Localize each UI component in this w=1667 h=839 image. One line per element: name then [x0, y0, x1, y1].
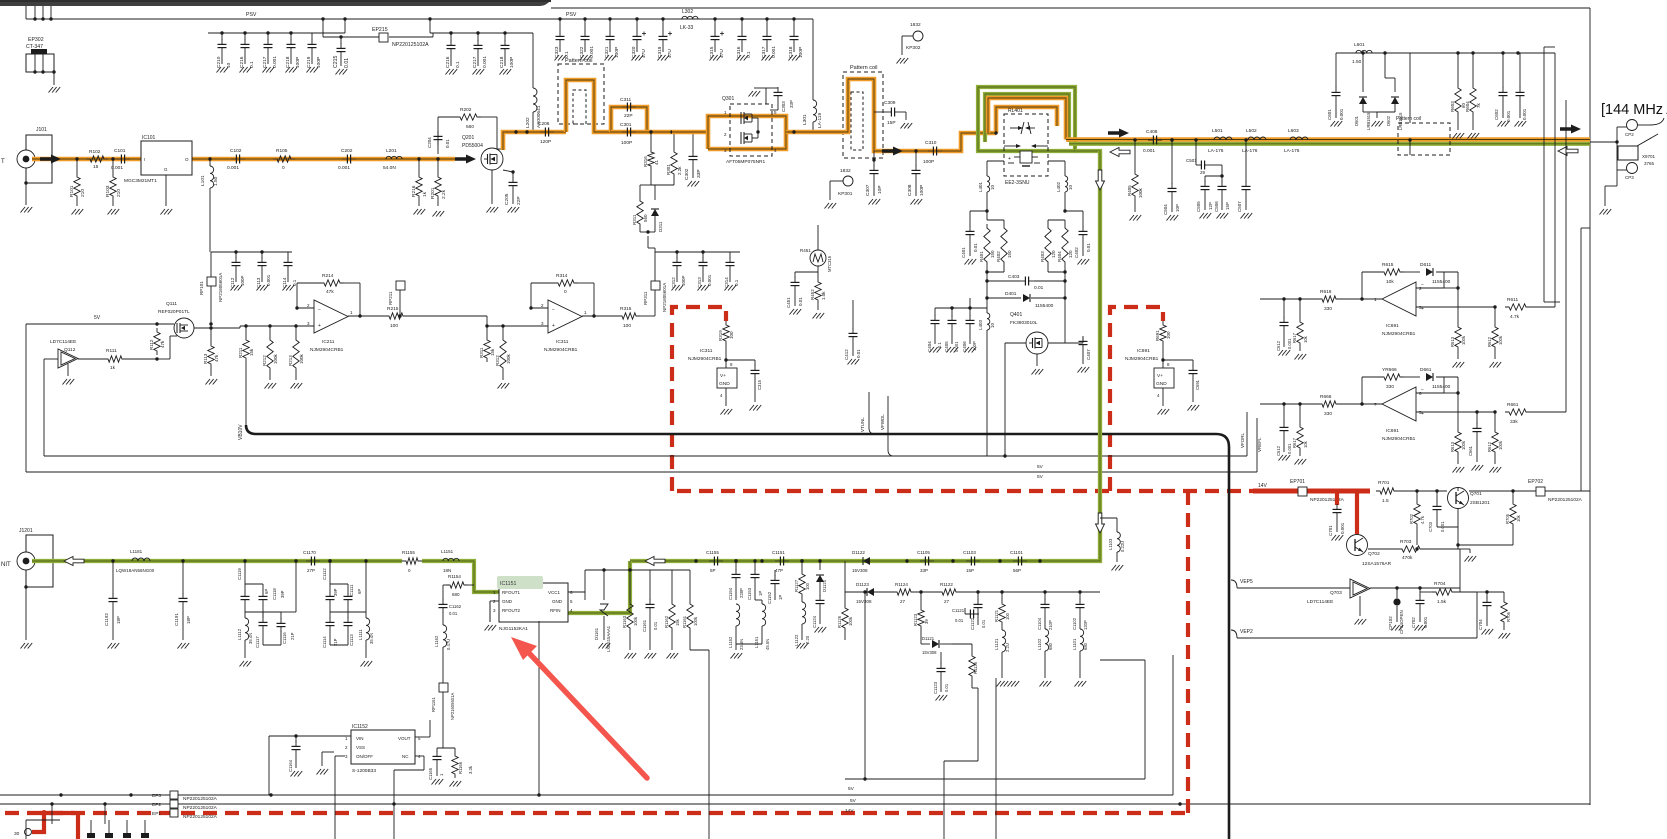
svg-text:C612: C612: [1276, 340, 1281, 351]
resistor R617 stage 2 10k: [1292, 404, 1308, 456]
svg-text:2.2k: 2.2k: [677, 166, 682, 175]
ground C320: [632, 55, 644, 61]
svg-text:D661: D661: [1420, 367, 1432, 373]
capacitor C315 0.01 bypass: [726, 360, 762, 402]
svg-text:1.50: 1.50: [1352, 59, 1362, 65]
wire IC691 stage 2 feedback: [1362, 377, 1460, 428]
svg-text:0.001: 0.001: [338, 165, 350, 171]
svg-text:0.01: 0.01: [955, 618, 964, 623]
wire sheet top border: [551, 7, 1590, 9]
resistor R703 470k: [1368, 539, 1460, 592]
svg-text:R1121: R1121: [994, 609, 999, 622]
wire 5V rail: [26, 322, 213, 325]
net label VFORL: [1240, 432, 1245, 448]
signal arrow after relay: [1108, 129, 1129, 138]
capacitor C661 0.001 stage2 extra: [1468, 410, 1482, 462]
wire IC691 stage 1 output: [1416, 305, 1497, 308]
ground C701: [1332, 535, 1344, 541]
svg-text:YR666: YR666: [1382, 367, 1397, 373]
relay RL401 dashed box: [1004, 108, 1048, 176]
svg-text:330: 330: [1386, 384, 1394, 390]
svg-text:1P: 1P: [778, 595, 783, 600]
inductor L1103 0.22U: [1100, 518, 1125, 562]
svg-text:IC1151: IC1151: [500, 581, 516, 587]
ground KP302: [897, 58, 909, 64]
svg-text:R314: R314: [556, 273, 568, 279]
svg-text:EE2-3SNU: EE2-3SNU: [1005, 180, 1030, 186]
ground L1103: [1112, 565, 1124, 571]
wire IC211-2 feedback: [529, 283, 618, 318]
ground C401: [965, 259, 977, 265]
svg-text:R1126: R1126: [837, 615, 842, 628]
capacitor C703 0.001: [1428, 489, 1458, 532]
ground edge connector: [1600, 209, 1612, 215]
ground C315: [710, 55, 722, 61]
attenuator pad RP211: [388, 281, 405, 318]
wire edge connector: [1590, 127, 1628, 206]
svg-text:R311: R311: [632, 214, 637, 225]
ground C216: [240, 67, 252, 73]
capacitor C101 0.001: [111, 148, 130, 171]
capacitor C612 stage 2: [1276, 404, 1292, 456]
ground Q201 source: [487, 170, 499, 213]
ground C314 row: [725, 285, 737, 291]
wire cap row riser: [648, 236, 655, 252]
svg-text:680: 680: [1048, 642, 1053, 650]
svg-text:0.01: 0.01: [981, 619, 986, 628]
capacitor C1103 15P in green: [951, 550, 980, 573]
svg-text:5P: 5P: [710, 568, 716, 573]
resistor R452 1.0k: [810, 266, 826, 310]
svg-text:27: 27: [944, 599, 950, 604]
capacitor C309 15P: [874, 100, 906, 126]
svg-text:C703: C703: [1428, 521, 1433, 532]
wire x1581 drop: [1581, 228, 1590, 491]
svg-text:0.01: 0.01: [798, 297, 803, 306]
svg-text:R1123: R1123: [913, 613, 918, 626]
svg-text:C612: C612: [1276, 445, 1281, 456]
svg-text:IC691: IC691: [1386, 323, 1399, 329]
svg-text:R616: R616: [1320, 289, 1332, 295]
capacitor C315 47U: [709, 17, 725, 58]
red solid bottom left: [32, 813, 75, 832]
capacitor C704 0.001: [1477, 590, 1492, 630]
svg-text:GND: GND: [502, 599, 513, 604]
ground D1161: [599, 643, 611, 649]
svg-text:54.0N: 54.0N: [383, 165, 396, 171]
capacitor C603 0.001: [1516, 53, 1528, 120]
resistor R216 1k: [411, 157, 428, 206]
svg-text:C1164: C1164: [288, 759, 293, 772]
svg-text:R316: R316: [643, 156, 648, 167]
ground C506: [1217, 213, 1229, 219]
capacitor C1191 18P: [174, 559, 191, 640]
svg-text:L201: L201: [386, 148, 397, 154]
ground C1123: [936, 695, 948, 701]
wire bottom rail to border corner: [0, 804, 1590, 805]
capacitor C505 12P: [1196, 176, 1222, 212]
svg-text:R312: R312: [495, 355, 500, 366]
capacitor C1170 27P in green: [294, 550, 331, 573]
ground J1201: [21, 643, 33, 649]
ground C210: [217, 67, 229, 73]
svg-text:10: 10: [990, 322, 995, 328]
svg-text:1.5k: 1.5k: [1437, 599, 1447, 605]
svg-text:EP2: EP2: [152, 802, 161, 808]
svg-text:15P: 15P: [887, 120, 896, 126]
resistor R103 210: [105, 157, 122, 206]
capacitor C1123 0.01: [933, 652, 949, 694]
net label 5V rail b: [850, 798, 857, 804]
wire block risers to orange: [1408, 53, 1411, 155]
svg-text:CP3: CP3: [1625, 175, 1634, 180]
net label VFWDL wire: [880, 396, 894, 456]
capacitor C112 100P: [230, 252, 245, 288]
red path loop2: [1110, 307, 1163, 491]
capacitor C407 0.01: [1065, 336, 1091, 364]
ground R216: [414, 209, 426, 215]
ground C302: [688, 181, 700, 187]
svg-text:C316: C316: [736, 46, 742, 58]
svg-text:10k: 10k: [1516, 514, 1521, 522]
ground R617 stage 1: [1295, 354, 1307, 360]
capacitor C1161 0.01: [642, 599, 658, 650]
wire R451 riser: [817, 225, 819, 250]
svg-text:EP215: EP215: [372, 27, 388, 33]
resistor R616 stage 1 330: [1318, 289, 1382, 312]
wire cap row A: [208, 19, 345, 35]
svg-text:L401: L401: [978, 181, 983, 192]
svg-text:R666: R666: [1320, 394, 1332, 400]
rx arrow outline down green 2: [1096, 513, 1105, 533]
wire green relay outer loop: [978, 87, 1075, 151]
net label VB10V: [238, 424, 244, 440]
wire green RFIN riser components: [584, 561, 586, 570]
svg-text:100P: 100P: [923, 159, 934, 165]
node after IC101: [208, 157, 211, 160]
wire IC1152 pins: [335, 720, 430, 839]
svg-text:4.7k: 4.7k: [1510, 314, 1520, 320]
svg-text:AFT05MP075NR1: AFT05MP075NR1: [726, 159, 766, 165]
svg-text:NP220125102A: NP220125102A: [1548, 497, 1583, 503]
svg-text:100: 100: [390, 323, 398, 329]
resistor R691 100: [1155, 321, 1171, 368]
svg-text:0.001: 0.001: [1143, 148, 1155, 154]
svg-text:33k: 33k: [1510, 419, 1518, 425]
diode D602 LRB1515: [1377, 53, 1403, 130]
svg-text:R705: R705: [1505, 513, 1510, 524]
svg-text:560: 560: [466, 124, 474, 130]
svg-text:T: T: [1, 159, 5, 165]
svg-text:15P: 15P: [966, 568, 974, 573]
svg-text:VIN: VIN: [356, 736, 364, 741]
wire IC1151 gnd pins below: [509, 622, 511, 650]
net label 5V rail a: [848, 786, 855, 792]
svg-text:3765: 3765: [1644, 161, 1655, 166]
svg-text:L502: L502: [1246, 128, 1257, 134]
svg-text:C1191: C1191: [174, 613, 179, 626]
ground C112: [231, 285, 243, 291]
svg-text:10: 10: [990, 184, 995, 190]
svg-text:L1111: L1111: [358, 629, 363, 640]
svg-text:C311: C311: [620, 97, 631, 103]
svg-text:R216: R216: [411, 185, 417, 197]
svg-text:RP211: RP211: [388, 291, 393, 305]
relay RL401 contacts: [1004, 122, 1048, 166]
svg-text:C319: C319: [657, 46, 663, 58]
wire x539 drop: [538, 621, 540, 795]
ground R1166: [450, 781, 462, 787]
svg-text:IC311: IC311: [700, 348, 713, 354]
svg-text:R452: R452: [810, 289, 815, 300]
svg-text:L301: L301: [802, 114, 808, 125]
ground R706: [1499, 633, 1511, 639]
svg-text:47k: 47k: [326, 289, 334, 295]
svg-text:0.001: 0.001: [707, 274, 712, 286]
attenuator pad RP101: [199, 273, 223, 302]
svg-text:RP101: RP101: [199, 281, 204, 295]
capacitor C321 100P: [604, 17, 620, 58]
svg-text:560: 560: [643, 214, 648, 222]
resistor R1163 100k: [622, 568, 638, 650]
svg-text:33P: 33P: [696, 169, 702, 178]
resistor R211 15k: [238, 326, 256, 434]
wire orange pattern coil 1 hump: [566, 80, 611, 132]
svg-text:Q301: Q301: [722, 96, 734, 102]
svg-text:R202: R202: [460, 107, 472, 113]
svg-text:100k: 100k: [1461, 440, 1466, 450]
ground C406: [965, 347, 977, 353]
svg-text:C215: C215: [333, 55, 339, 68]
wire IC691 stage 1 input: [1260, 297, 1318, 300]
svg-text:L1121: L1121: [994, 638, 999, 650]
svg-text:0.001: 0.001: [1339, 108, 1344, 120]
svg-text:1832: 1832: [910, 22, 921, 28]
svg-text:33P: 33P: [920, 568, 928, 573]
resistor R704 1.5k: [1420, 581, 1477, 605]
wire RX second row: [845, 561, 1100, 594]
svg-text:210P: 210P: [1048, 620, 1053, 630]
wire IC1152 input: [269, 736, 351, 795]
wire R661 up right: [1530, 100, 1566, 412]
svg-text:10k: 10k: [1386, 279, 1394, 285]
svg-text:RFIN: RFIN: [550, 608, 561, 613]
svg-text:C402: C402: [1074, 247, 1079, 258]
wire green parallel out to border: [1069, 142, 1590, 146]
wire pi filter 1: [243, 559, 263, 655]
capacitor C507 cap: [1237, 138, 1251, 212]
svg-text:0.01: 0.01: [445, 139, 450, 148]
svg-text:LRB1515: LRB1515: [1366, 112, 1371, 130]
svg-text:C1154: C1154: [728, 587, 733, 600]
inductor L1162 0.47U: [434, 625, 451, 683]
capacitor C506 15P: [1214, 176, 1230, 212]
svg-text:47k: 47k: [160, 340, 165, 348]
svg-text:R1122: R1122: [940, 582, 953, 587]
diode D1122 15V308 in green: [852, 550, 870, 573]
svg-text:0.001: 0.001: [1340, 522, 1345, 534]
svg-text:L1152: L1152: [728, 636, 733, 648]
ground R103: [108, 209, 120, 215]
resistor R311 15k: [479, 326, 495, 362]
svg-text:100: 100: [805, 582, 810, 590]
svg-text:R612: R612: [1487, 441, 1492, 452]
svg-text:R213: R213: [288, 355, 293, 366]
ground C402: [1078, 259, 1090, 265]
svg-text:EP302: EP302: [28, 37, 44, 43]
svg-text:1155400: 1155400: [1035, 303, 1054, 309]
svg-text:R611: R611: [1507, 297, 1518, 303]
svg-text:0.1: 0.1: [249, 61, 255, 68]
svg-text:C1105: C1105: [917, 550, 930, 555]
signal arrow into Q201: [455, 155, 476, 164]
svg-text:18N: 18N: [443, 568, 451, 573]
svg-text:LA-176: LA-176: [1208, 148, 1224, 154]
svg-text:NP220125102A: NP220125102A: [1310, 497, 1345, 503]
capacitor C1161 0.01 net: [568, 592, 585, 601]
wire sheet right border: [1589, 8, 1591, 805]
svg-text:C408: C408: [1146, 129, 1158, 135]
test pad EP3: [152, 791, 218, 802]
wire orange into Q301 ring: [672, 130, 708, 135]
svg-text:C217: C217: [262, 56, 268, 68]
ground C308: [911, 199, 923, 205]
capacitor C218 100P: [285, 33, 301, 68]
svg-text:LD7C114EE: LD7C114EE: [1307, 599, 1333, 605]
ground C1191: [178, 643, 190, 649]
svg-text:6P: 6P: [357, 589, 362, 594]
svg-text:C702: C702: [1411, 617, 1416, 628]
svg-text:EP1: EP1: [152, 811, 161, 817]
wire IC691 stage 2 output: [1416, 410, 1497, 413]
svg-text:100k: 100k: [506, 353, 511, 364]
ground C217 row B: [473, 69, 485, 75]
svg-text:C403: C403: [1008, 274, 1020, 280]
capacitor C601 0.001: [1327, 87, 1344, 120]
svg-text:R706: R706: [1506, 611, 1511, 622]
svg-text:G: G: [164, 167, 168, 172]
resistor R617 stage 1 10k: [1292, 299, 1308, 351]
regulator IC1152 S-1200B33: [345, 724, 421, 774]
ground C219: [307, 67, 319, 73]
capacitor C303 33P: [754, 87, 794, 112]
svg-text:C1121: C1121: [952, 608, 965, 613]
svg-text:6P: 6P: [264, 589, 269, 594]
ground C322: [580, 55, 592, 61]
resistor R1154 680: [443, 574, 474, 600]
capacitor C1152 1P: [755, 570, 783, 604]
resistor R701 1.5: [1376, 480, 1447, 504]
svg-text:C1111: C1111: [349, 584, 354, 596]
svg-text:10: 10: [226, 62, 232, 68]
svg-text:41: 41: [654, 159, 659, 165]
svg-text:GND: GND: [552, 599, 563, 604]
svg-text:GND: GND: [719, 381, 730, 387]
svg-text:D1121: D1121: [922, 636, 935, 641]
svg-text:V+: V+: [1157, 373, 1163, 379]
svg-text:C205: C205: [504, 193, 510, 205]
capacitor C114 0.1: [282, 252, 297, 288]
svg-text:LQW18AN56NG00: LQW18AN56NG00: [116, 568, 155, 573]
svg-text:L1103: L1103: [1108, 538, 1113, 550]
svg-text:Q703: Q703: [1330, 590, 1342, 596]
svg-text:0.1: 0.1: [937, 342, 942, 348]
resistor R402 150: [996, 220, 1012, 272]
ground R452: [813, 313, 825, 319]
svg-text:−: −: [552, 307, 555, 313]
svg-text:R703: R703: [1400, 539, 1412, 545]
ground C317: [762, 55, 774, 61]
svg-text:L1151: L1151: [441, 549, 454, 554]
net label 14V: [1258, 483, 1268, 489]
svg-text:0.01: 0.01: [856, 349, 861, 358]
capacitor C1117 41P: [255, 612, 281, 648]
svg-text:NJM2904CRB1: NJM2904CRB1: [1125, 356, 1159, 362]
svg-text:5V: 5V: [850, 798, 857, 804]
capacitor C310 100P in orange: [923, 140, 942, 165]
svg-text:PSV: PSV: [566, 12, 577, 18]
resistor R101 210: [69, 157, 86, 206]
svg-text:C206: C206: [538, 121, 550, 127]
inductor L402 10: [1056, 176, 1073, 213]
ground C507: [1241, 213, 1253, 219]
svg-text:C602: C602: [1494, 109, 1499, 120]
ground R613 stage 1: [1453, 362, 1465, 368]
inductor L603 LA-176 in orange: [1284, 128, 1308, 154]
ground C307: [869, 199, 881, 205]
wire rail y793: [0, 793, 1182, 805]
svg-text:C1152: C1152: [767, 591, 772, 604]
svg-text:RP1161: RP1161: [431, 697, 436, 712]
svg-text:100k: 100k: [273, 353, 278, 364]
transistor Q702 12SA1576AR: [1347, 535, 1392, 568]
rx arrow outline down green: [1096, 170, 1105, 190]
resistor R612 stage 2 100k: [1487, 412, 1503, 464]
svg-text:100k: 100k: [693, 616, 698, 626]
svg-text:C309: C309: [884, 100, 896, 106]
capacitor C403 0.01: [985, 274, 1066, 291]
ground R212: [265, 383, 277, 389]
ground L1102: [1040, 681, 1052, 687]
svg-text:IC211: IC211: [322, 339, 335, 345]
svg-text:R403: R403: [1040, 251, 1045, 262]
svg-text:C601: C601: [1327, 109, 1332, 120]
svg-text:I: I: [144, 157, 145, 162]
resistor R319 100: [718, 321, 734, 368]
svg-text:R215: R215: [387, 306, 399, 312]
attenuator pad RP311: [643, 252, 667, 312]
ground D601 D602: [1372, 121, 1384, 127]
ground IC691: [1158, 409, 1170, 415]
connector pin 30: [14, 820, 60, 839]
ground IC1152 vss: [317, 752, 335, 775]
svg-text:0.1: 0.1: [734, 279, 739, 286]
wire orange relay outer loop: [988, 98, 1066, 140]
wire green vertical from relay: [630, 151, 1100, 561]
svg-text:C1103: C1103: [963, 550, 976, 555]
svg-text:1155400: 1155400: [1432, 279, 1451, 285]
svg-text:C1161: C1161: [642, 619, 647, 632]
svg-text:C1122: C1122: [970, 617, 975, 630]
wire VB10V thick rail: [246, 425, 1229, 839]
svg-text:L603: L603: [1288, 128, 1299, 134]
capacitor C317 0.001: [761, 17, 777, 58]
net label PSV (2): [566, 12, 577, 18]
svg-text:100P: 100P: [681, 275, 686, 286]
svg-text:Q201: Q201: [462, 135, 474, 141]
svg-text:2.2U: 2.2U: [1005, 643, 1010, 652]
svg-text:0.001: 0.001: [272, 56, 278, 68]
